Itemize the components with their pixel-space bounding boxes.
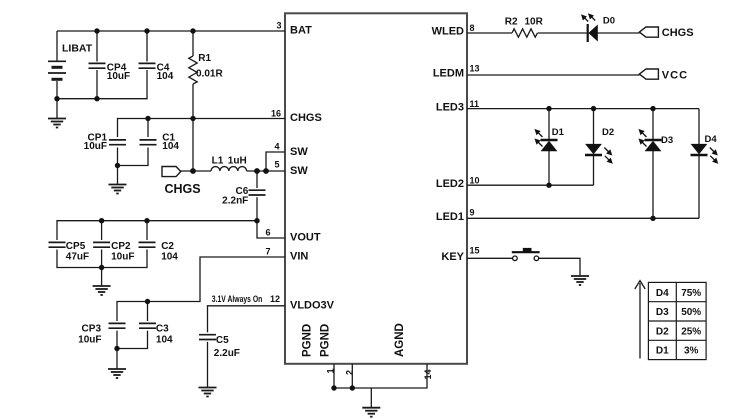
svg-text:D4: D4 (656, 288, 669, 299)
node CHGS/R1 junction (190, 116, 195, 121)
svg-text:D2: D2 (602, 127, 614, 138)
capacitor CP5 (49, 242, 66, 247)
wire L1 to SW pin 5 (247, 170, 286, 172)
node CP4 bottom junction (94, 96, 99, 101)
wire CP5/CP2/C2 bottom rail (57, 250, 147, 268)
svg-text:3%: 3% (684, 346, 699, 357)
svg-text:10uF: 10uF (84, 141, 107, 152)
wire CP3/C3 bottom rail (117, 331, 148, 349)
svg-text:VCC: VCC (662, 69, 688, 81)
svg-text:7: 7 (265, 247, 270, 257)
svg-text:4: 4 (274, 142, 279, 152)
svg-text:D2: D2 (656, 326, 669, 337)
node PGND2 junction (350, 385, 355, 390)
svg-text:16: 16 (271, 109, 281, 119)
svg-text:LIBAT: LIBAT (62, 43, 93, 55)
node LED2/D1 junction (546, 183, 551, 188)
wire C5 bottom stem to ground (207, 342, 209, 387)
node BAT/CP4 junction (94, 28, 99, 33)
svg-text:10uF: 10uF (78, 334, 101, 345)
ground (battery) (48, 119, 66, 128)
svg-text:CP2: CP2 (111, 241, 131, 252)
switch KEY button (512, 248, 540, 261)
svg-text:47uF: 47uF (66, 252, 89, 263)
svg-text:L1: L1 (212, 155, 224, 166)
node battery minus junction (54, 96, 59, 101)
capacitor CP1 (109, 140, 126, 145)
wire battery bottom rail to C4 (57, 70, 147, 99)
resistor R1 (189, 56, 197, 84)
node LED3/D2 junction (591, 106, 596, 111)
svg-text:CHGS: CHGS (662, 27, 694, 39)
LED D3 (640, 130, 662, 151)
node BAT/C4 junction (144, 28, 149, 33)
capacitor C6 (249, 190, 266, 195)
svg-text:D1: D1 (552, 127, 565, 138)
svg-text:LED2: LED2 (436, 178, 464, 190)
svg-text:12: 12 (270, 294, 280, 304)
node VOUT/C2 junction (144, 218, 149, 223)
node VIN/C3 junction (145, 299, 150, 304)
svg-text:50%: 50% (681, 307, 701, 318)
svg-text:C2: C2 (161, 241, 174, 252)
LED D1 (536, 130, 558, 151)
svg-text:D3: D3 (656, 307, 669, 318)
svg-text:104: 104 (156, 334, 173, 345)
svg-text:1uH: 1uH (228, 155, 247, 166)
svg-text:11: 11 (470, 99, 480, 109)
svg-text:CHGS: CHGS (165, 182, 201, 196)
svg-text:2: 2 (345, 370, 355, 375)
wire LED3 rail (467, 108, 699, 110)
ground (C5) (199, 388, 217, 397)
svg-text:15: 15 (470, 246, 480, 256)
svg-text:3.1V Always On: 3.1V Always On (212, 294, 262, 304)
wire VIN pin elbow (117, 257, 285, 321)
wire CHGS net (pin 16 rail) (118, 119, 286, 138)
wire VOUT pin elbow (257, 221, 285, 238)
node VOUT/C6 junction (254, 218, 259, 223)
ground (KEY) (571, 276, 589, 285)
brightness arrow (635, 281, 645, 359)
wire VOUT rail (57, 221, 257, 240)
wire battery top stem (56, 31, 58, 61)
node SW/C6 junction (254, 168, 260, 174)
node LED3/D3 junction (650, 106, 655, 111)
capacitor CP2 (93, 242, 110, 247)
svg-text:AGND: AGND (394, 323, 406, 357)
capacitor C4 (139, 63, 156, 68)
ground (CP3/C3) (108, 369, 126, 378)
svg-text:3: 3 (276, 21, 281, 31)
wire PGND pin 2 stub (351, 364, 353, 388)
wire D0 to CHGS connector (598, 32, 640, 34)
svg-text:5: 5 (274, 160, 279, 170)
node PGND1 junction (331, 385, 336, 390)
node CHGS input junction (190, 168, 196, 174)
svg-text:2.2nF: 2.2nF (222, 196, 248, 207)
wire SW pin 4 elbow (266, 152, 285, 171)
svg-text:LED1: LED1 (436, 211, 464, 223)
svg-text:8: 8 (470, 23, 475, 33)
capacitor C1 (140, 140, 157, 145)
svg-text:PGND: PGND (302, 324, 314, 357)
svg-text:14: 14 (423, 369, 433, 379)
svg-text:104: 104 (157, 71, 174, 82)
capacitor C5 (199, 335, 216, 340)
svg-text:VOUT: VOUT (290, 232, 321, 244)
svg-text:R1: R1 (198, 53, 211, 64)
node CP2 bottom junction (99, 265, 104, 270)
svg-text:SW: SW (290, 146, 308, 158)
wire LED1 rail (467, 217, 699, 219)
svg-text:VLDO3V: VLDO3V (290, 299, 335, 311)
node SW4/SW5 junction (263, 168, 269, 174)
wire C1 top stem (147, 119, 149, 138)
wire LEDM to VCC connector (467, 74, 640, 76)
wire C6 bottom stem to VOUT rail (256, 197, 258, 221)
LED D2 (585, 144, 612, 163)
wire button to ground (539, 258, 580, 275)
capacitor CP4 (89, 63, 106, 68)
svg-text:C5: C5 (216, 335, 229, 346)
resistor R2 (512, 29, 537, 37)
svg-text:SW: SW (290, 165, 308, 177)
svg-text:75%: 75% (681, 288, 701, 299)
svg-text:KEY: KEY (441, 251, 464, 263)
wire CP4 stems (96, 31, 98, 62)
capacitor C3 (139, 323, 156, 328)
svg-text:9: 9 (470, 208, 475, 218)
wire KEY to button (467, 257, 513, 259)
svg-text:104: 104 (162, 141, 179, 152)
wire BAT rail (battery to pin 3) (57, 30, 285, 32)
svg-text:PGND: PGND (320, 324, 332, 357)
wire CHGS connector to L1 (181, 170, 212, 172)
wire C6 top stem (256, 171, 258, 188)
LED D4 (691, 144, 718, 163)
svg-text:D0: D0 (603, 16, 615, 27)
svg-text:C3: C3 (156, 324, 169, 335)
svg-text:104: 104 (161, 252, 178, 263)
connector CHGS (output, right) (639, 27, 658, 37)
svg-text:2.2uF: 2.2uF (214, 348, 240, 359)
node VOUT/CP2 junction (99, 218, 104, 223)
wire CP1 bottom stem (117, 148, 119, 185)
svg-text:10uF: 10uF (111, 252, 134, 263)
wire VLDO3V pin elbow to C5 (208, 306, 286, 333)
battery LIBAT (48, 61, 66, 79)
ground (PGND/AGND) (362, 408, 380, 417)
wire battery bottom stem to ground (56, 81, 58, 119)
node LED1/D3 junction (650, 216, 655, 221)
connector VCC (639, 69, 658, 79)
wire D3 branch (652, 109, 654, 139)
wire LED2 rail (467, 184, 594, 186)
capacitor C2 (139, 242, 156, 247)
wire D4 branch (right column) (698, 109, 700, 145)
capacitor CP3 (109, 323, 126, 328)
svg-text:10R: 10R (525, 16, 544, 27)
svg-text:D3: D3 (661, 135, 673, 146)
svg-text:LEDM: LEDM (433, 68, 464, 80)
wire C4 top stem (146, 31, 148, 62)
svg-text:CHGS: CHGS (290, 112, 322, 124)
svg-text:13: 13 (470, 64, 480, 74)
wire CP3 bottom stem to ground (116, 331, 118, 369)
wire CP2 stems (101, 221, 103, 240)
wire PGND pin 1 stub (333, 364, 335, 388)
ground (CP1/C1) (109, 185, 127, 194)
svg-text:25%: 25% (681, 326, 701, 337)
svg-text:CP3: CP3 (82, 324, 102, 335)
node LED3/D1 junction (546, 106, 551, 111)
op-amp/IC U1 body (285, 13, 467, 364)
svg-text:D4: D4 (705, 134, 718, 145)
wire D1 branch (548, 109, 550, 139)
svg-text:VIN: VIN (290, 251, 308, 263)
connector CHGS (input, left) (162, 167, 181, 177)
wire AGND pin 14 stub (334, 364, 427, 388)
svg-text:LED3: LED3 (436, 101, 464, 113)
node CP1 bottom junction (115, 163, 120, 168)
svg-text:R2: R2 (505, 16, 518, 27)
wire R1 branch vertical (192, 31, 194, 56)
wire WLED to R2 (467, 32, 512, 34)
wire C2 top stem (146, 221, 148, 240)
wire CP1/C1 bottom rail (118, 148, 149, 166)
ground (CP2) (93, 286, 111, 295)
inductor L1 (211, 167, 247, 171)
node CP3 bottom junction (114, 346, 119, 351)
wire ground stem bottom (370, 388, 372, 407)
svg-text:BAT: BAT (290, 25, 312, 37)
LED D0 (582, 14, 615, 42)
svg-text:CP5: CP5 (66, 241, 86, 252)
node CHGS/C1 junction (145, 116, 150, 121)
wire R2 to D0 (538, 32, 587, 34)
svg-text:WLED: WLED (432, 26, 464, 38)
svg-text:10uF: 10uF (107, 71, 130, 82)
svg-text:6: 6 (265, 228, 270, 238)
wire C3 top stem (147, 302, 149, 322)
duty-cycle table (648, 282, 706, 359)
svg-text:10: 10 (470, 176, 480, 186)
wire D2 branch (593, 109, 595, 145)
svg-text:D1: D1 (656, 346, 669, 357)
node BAT/R1 junction (190, 28, 195, 33)
svg-text:0.01R: 0.01R (196, 68, 223, 79)
